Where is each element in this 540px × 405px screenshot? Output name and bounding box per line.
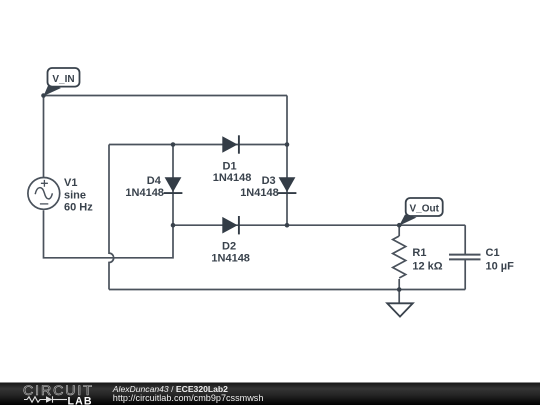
wire bridge left drop with hop xyxy=(109,145,114,290)
svg-text:C1: C1 xyxy=(486,247,500,259)
node bottom rail / D3 junction xyxy=(285,223,290,228)
flag V_Out xyxy=(399,198,443,226)
diode D4 xyxy=(164,177,183,193)
svg-text:60 Hz: 60 Hz xyxy=(64,202,93,214)
footer bar xyxy=(0,383,540,405)
svg-text:V_Out: V_Out xyxy=(409,203,439,214)
wire R1 top lead xyxy=(398,225,400,236)
svg-text:sine: sine xyxy=(64,189,86,201)
capacitor C1 xyxy=(449,255,481,260)
wire top rail xyxy=(109,144,287,146)
D3 labels xyxy=(240,175,279,199)
node bottom rail / D4 junction xyxy=(171,223,176,228)
svg-text:R1: R1 xyxy=(412,247,426,259)
diode D3 xyxy=(278,177,297,193)
svg-text:LAB: LAB xyxy=(68,395,93,405)
wire D4 branch xyxy=(172,145,174,226)
svg-text:D1: D1 xyxy=(223,160,237,172)
resistor R1 xyxy=(393,236,406,278)
svg-text:V_IN: V_IN xyxy=(52,74,74,85)
svg-text:D4: D4 xyxy=(147,175,162,187)
node V_Out junction xyxy=(397,223,402,228)
diode D1 xyxy=(222,135,239,153)
D2 labels xyxy=(211,241,250,265)
node V_IN junction xyxy=(41,93,46,98)
wire ground rail xyxy=(109,289,465,291)
svg-text:http://circuitlab.com/cmb9p7cs: http://circuitlab.com/cmb9p7cssmwsh xyxy=(113,393,264,403)
node top rail / D3 junction xyxy=(285,142,290,147)
footer logo waveform xyxy=(24,396,67,402)
flag V_IN xyxy=(44,68,80,96)
wire C1 top lead xyxy=(464,225,466,254)
C1 labels xyxy=(486,247,515,272)
wire D3 branch xyxy=(286,145,288,226)
wire V1 top lead xyxy=(43,96,45,178)
svg-text:D2: D2 xyxy=(222,241,236,253)
wire right drop to top rail xyxy=(286,96,288,145)
svg-text:1N4148: 1N4148 xyxy=(240,187,279,199)
diode D2 xyxy=(222,216,239,234)
svg-text:1N4148: 1N4148 xyxy=(211,252,250,264)
svg-text:12 kΩ: 12 kΩ xyxy=(412,260,442,272)
D4 labels xyxy=(125,175,164,199)
wire V1 bottom to net A xyxy=(44,210,174,257)
wire ground stem xyxy=(398,290,400,304)
wire C1 bottom lead xyxy=(464,260,466,290)
svg-text:1N4148: 1N4148 xyxy=(213,172,252,184)
wire bottom rail xyxy=(173,224,465,226)
wire R1 bottom lead xyxy=(398,279,400,290)
svg-text:10 µF: 10 µF xyxy=(486,260,515,272)
wire V_IN rail xyxy=(44,95,288,97)
svg-text:V1: V1 xyxy=(64,177,77,189)
ground xyxy=(387,303,413,316)
svg-text:D3: D3 xyxy=(262,175,276,187)
node ground junction xyxy=(397,287,402,292)
D1 labels xyxy=(213,160,252,184)
V1 labels xyxy=(64,177,93,214)
R1 labels xyxy=(412,247,442,272)
voltage source V1 xyxy=(28,178,60,210)
node top rail / D4 junction xyxy=(171,142,176,147)
svg-text:1N4148: 1N4148 xyxy=(125,187,164,199)
